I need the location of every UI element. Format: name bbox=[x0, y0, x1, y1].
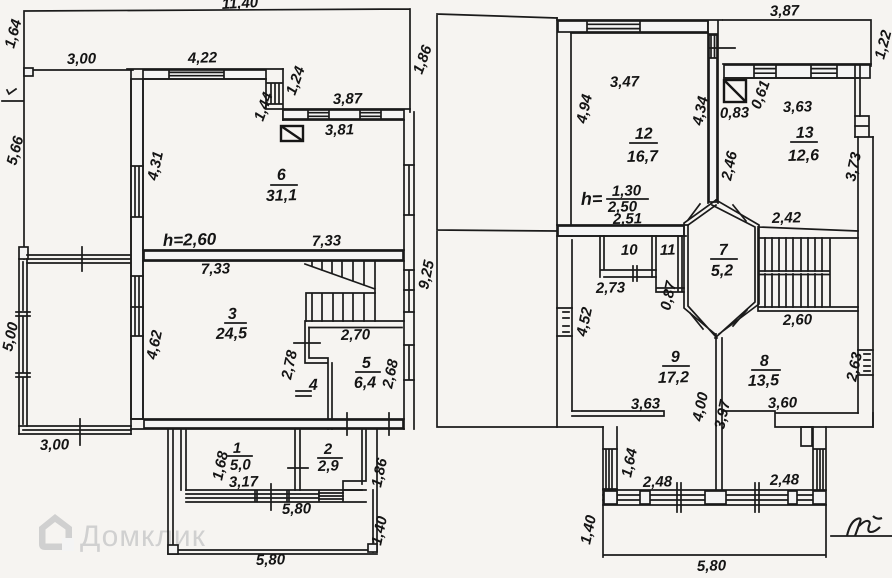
svg-text:2,73: 2,73 bbox=[595, 279, 626, 297]
svg-text:13,5: 13,5 bbox=[748, 372, 781, 390]
svg-text:3,47: 3,47 bbox=[610, 73, 640, 91]
svg-text:2,78: 2,78 bbox=[278, 348, 301, 382]
svg-text:1,40: 1,40 bbox=[368, 514, 391, 547]
svg-text:3,17: 3,17 bbox=[229, 473, 259, 491]
svg-text:2,70: 2,70 bbox=[340, 326, 371, 344]
svg-text:2,60: 2,60 bbox=[782, 311, 813, 329]
svg-text:2,48: 2,48 bbox=[769, 471, 800, 489]
svg-text:4,52: 4,52 bbox=[573, 305, 596, 339]
svg-text:h=: h= bbox=[581, 188, 604, 209]
svg-text:3,81: 3,81 bbox=[325, 121, 355, 139]
svg-text:8: 8 bbox=[760, 353, 769, 370]
svg-text:17,2: 17,2 bbox=[658, 369, 690, 387]
svg-text:10: 10 bbox=[621, 242, 639, 259]
svg-text:31,1: 31,1 bbox=[266, 187, 298, 205]
svg-text:4,62: 4,62 bbox=[143, 328, 166, 362]
svg-text:1: 1 bbox=[233, 440, 242, 457]
svg-text:1,44: 1,44 bbox=[251, 90, 277, 124]
svg-text:3,63: 3,63 bbox=[783, 98, 813, 116]
svg-text:4,22: 4,22 bbox=[187, 49, 218, 67]
svg-text:2,48: 2,48 bbox=[642, 473, 673, 491]
svg-text:6: 6 bbox=[277, 167, 286, 184]
svg-text:2: 2 bbox=[323, 441, 333, 458]
svg-text:1,22: 1,22 bbox=[871, 28, 892, 61]
svg-text:4,94: 4,94 bbox=[573, 92, 596, 126]
svg-text:16,7: 16,7 bbox=[627, 148, 660, 166]
svg-text:6,4: 6,4 bbox=[354, 374, 377, 392]
svg-text:0,87: 0,87 bbox=[657, 279, 680, 312]
svg-text:h=2,60: h=2,60 bbox=[163, 230, 217, 250]
svg-text:1,64: 1,64 bbox=[1, 17, 25, 50]
svg-text:1,30: 1,30 bbox=[612, 182, 642, 200]
svg-text:1,24: 1,24 bbox=[283, 64, 309, 98]
svg-text:12: 12 bbox=[635, 126, 653, 143]
svg-text:7: 7 bbox=[719, 242, 729, 259]
svg-text:5,0: 5,0 bbox=[230, 456, 252, 474]
svg-text:3,60: 3,60 bbox=[768, 394, 798, 412]
svg-text:12,6: 12,6 bbox=[788, 147, 820, 165]
svg-text:1,40: 1,40 bbox=[577, 513, 600, 546]
svg-text:2,63: 2,63 bbox=[843, 350, 866, 384]
svg-text:5,80: 5,80 bbox=[697, 557, 727, 575]
svg-text:2,9: 2,9 bbox=[317, 457, 340, 475]
svg-text:Домклик: Домклик bbox=[80, 520, 206, 553]
svg-text:2,46: 2,46 bbox=[718, 149, 741, 183]
svg-text:5,2: 5,2 bbox=[711, 262, 734, 280]
svg-text:11,40: 11,40 bbox=[221, 0, 259, 13]
svg-text:2,42: 2,42 bbox=[771, 209, 802, 227]
svg-text:13: 13 bbox=[796, 125, 814, 142]
svg-text:1,64: 1,64 bbox=[618, 446, 641, 479]
svg-text:3,73: 3,73 bbox=[842, 150, 865, 183]
svg-text:1,86: 1,86 bbox=[368, 456, 391, 489]
svg-text:4,31: 4,31 bbox=[144, 150, 167, 183]
svg-text:7,33: 7,33 bbox=[312, 232, 342, 250]
svg-text:5,80: 5,80 bbox=[256, 551, 286, 569]
svg-text:2,51: 2,51 bbox=[612, 210, 643, 228]
svg-text:1,86: 1,86 bbox=[410, 43, 436, 77]
svg-text:3,00: 3,00 bbox=[40, 436, 70, 454]
svg-text:9: 9 bbox=[671, 349, 680, 366]
svg-text:2,68: 2,68 bbox=[379, 357, 402, 391]
svg-text:9,25: 9,25 bbox=[415, 258, 438, 291]
svg-text:4,00: 4,00 bbox=[689, 390, 712, 424]
svg-text:11: 11 bbox=[660, 242, 676, 259]
svg-text:3,63: 3,63 bbox=[631, 395, 661, 413]
svg-text:3: 3 bbox=[228, 306, 237, 323]
svg-text:3,97: 3,97 bbox=[711, 398, 734, 431]
svg-text:0,61: 0,61 bbox=[748, 78, 774, 111]
svg-text:3,87: 3,87 bbox=[770, 2, 800, 20]
svg-text:3,87: 3,87 bbox=[333, 90, 363, 108]
svg-text:5: 5 bbox=[362, 355, 372, 372]
svg-text:0,83: 0,83 bbox=[720, 104, 750, 122]
svg-text:7,33: 7,33 bbox=[201, 260, 231, 278]
svg-text:4: 4 bbox=[308, 377, 318, 394]
svg-text:24,5: 24,5 bbox=[215, 325, 249, 343]
svg-text:5,80: 5,80 bbox=[282, 500, 312, 518]
svg-text:3,00: 3,00 bbox=[67, 50, 97, 68]
